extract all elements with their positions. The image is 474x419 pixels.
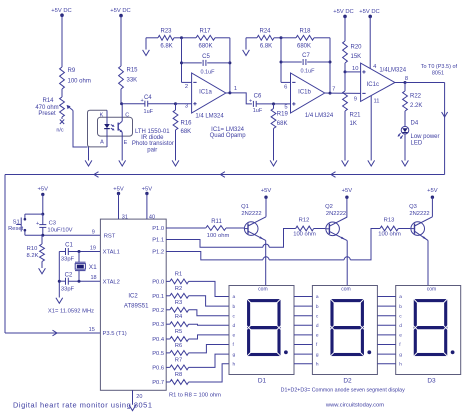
svg-text:A: A — [100, 140, 104, 146]
svg-text:Q1: Q1 — [241, 204, 249, 210]
svg-text:40: 40 — [149, 214, 155, 220]
svg-text:D2: D2 — [343, 378, 352, 385]
svg-text:d: d — [316, 323, 319, 329]
svg-text:68K: 68K — [181, 129, 192, 135]
svg-text:XTAL2: XTAL2 — [103, 279, 120, 285]
svg-text:com: com — [341, 286, 350, 292]
svg-text:68K: 68K — [277, 121, 288, 127]
svg-text:R18: R18 — [299, 28, 311, 34]
svg-text:1/4 LM324: 1/4 LM324 — [195, 114, 224, 120]
svg-text:1/4LM324: 1/4LM324 — [379, 68, 406, 74]
svg-text:S1: S1 — [13, 219, 20, 225]
svg-text:Photo transistor: Photo transistor — [132, 141, 174, 147]
svg-text:IR diode: IR diode — [141, 135, 164, 141]
svg-text:P1.0: P1.0 — [152, 226, 164, 232]
svg-text:X1= 11.0592 MHz: X1= 11.0592 MHz — [48, 308, 94, 314]
svg-text:+5V DC: +5V DC — [333, 9, 353, 15]
svg-text:20: 20 — [136, 394, 142, 400]
svg-text:C2: C2 — [65, 272, 73, 278]
svg-text:6.8K: 6.8K — [260, 44, 272, 50]
svg-text:IC1c: IC1c — [367, 82, 379, 88]
svg-text:C3: C3 — [49, 220, 56, 226]
svg-text:g: g — [399, 353, 402, 358]
svg-text:6: 6 — [284, 84, 287, 90]
svg-text:31: 31 — [122, 214, 128, 220]
svg-text:2.2K: 2.2K — [410, 103, 422, 109]
svg-text:R13: R13 — [384, 218, 395, 224]
svg-text:a: a — [233, 295, 236, 300]
svg-text:R8: R8 — [175, 372, 182, 378]
svg-text:R1: R1 — [175, 271, 182, 277]
svg-text:R23: R23 — [160, 28, 172, 34]
svg-text:7: 7 — [332, 87, 335, 93]
svg-text:LTH 1550-01: LTH 1550-01 — [135, 129, 170, 135]
svg-text:680K: 680K — [198, 44, 212, 50]
svg-text:9: 9 — [92, 229, 95, 235]
svg-text:P1.1: P1.1 — [152, 238, 164, 244]
svg-text:a: a — [399, 295, 402, 300]
svg-text:15K: 15K — [351, 54, 362, 60]
svg-text:6.8K: 6.8K — [160, 44, 172, 50]
svg-text:R14: R14 — [42, 98, 54, 104]
svg-text:+: + — [36, 221, 39, 227]
svg-text:P0.0: P0.0 — [152, 279, 164, 285]
svg-text:R1 to R8 = 100 ohm: R1 to R8 = 100 ohm — [169, 393, 221, 399]
svg-text:100 ohm: 100 ohm — [378, 232, 401, 238]
svg-text:P1.2: P1.2 — [152, 250, 164, 256]
svg-text:IC1b: IC1b — [298, 89, 311, 95]
svg-text:C1: C1 — [65, 243, 73, 249]
svg-text:33K: 33K — [127, 78, 138, 84]
svg-text:9: 9 — [354, 97, 357, 103]
svg-text:1: 1 — [234, 86, 237, 92]
svg-text:P0.2: P0.2 — [152, 308, 164, 314]
svg-text:R4: R4 — [175, 314, 183, 320]
svg-text:C7: C7 — [302, 53, 310, 59]
svg-text:8.2K: 8.2K — [27, 253, 39, 259]
svg-text:1uF: 1uF — [253, 108, 263, 114]
svg-text:+5V: +5V — [113, 187, 124, 193]
svg-text:d: d — [233, 323, 236, 329]
svg-text:R16: R16 — [181, 121, 193, 127]
svg-text:R22: R22 — [410, 94, 422, 100]
svg-text:To T0 (P3.5) of: To T0 (P3.5) of — [421, 64, 458, 70]
svg-text:XTAL1: XTAL1 — [103, 250, 120, 256]
svg-text:Q3: Q3 — [409, 204, 417, 210]
svg-text:P0.5: P0.5 — [152, 351, 164, 357]
svg-text:10: 10 — [352, 66, 358, 72]
svg-text:2: 2 — [185, 84, 188, 90]
svg-text:19: 19 — [90, 245, 96, 251]
svg-text:680K: 680K — [297, 44, 311, 50]
svg-text:2N2222: 2N2222 — [326, 211, 346, 217]
svg-text:b: b — [233, 304, 236, 310]
svg-text:33pF: 33pF — [61, 286, 75, 292]
svg-text:+5V DC: +5V DC — [359, 9, 379, 15]
svg-text:8: 8 — [405, 76, 408, 82]
svg-text:Quad Opamp: Quad Opamp — [210, 133, 247, 139]
svg-text:5: 5 — [284, 104, 287, 110]
svg-text:Reset: Reset — [8, 226, 24, 232]
svg-text:0.1uF: 0.1uF — [300, 69, 315, 75]
svg-text:100 ohm: 100 ohm — [293, 232, 316, 238]
svg-text:R11: R11 — [211, 219, 222, 225]
svg-text:AT89S51: AT89S51 — [124, 304, 149, 310]
svg-text:R15: R15 — [127, 68, 139, 74]
svg-text:R9: R9 — [68, 68, 76, 74]
svg-text:+5V: +5V — [142, 187, 153, 193]
svg-text:IC2: IC2 — [128, 293, 138, 299]
svg-text:R3: R3 — [175, 300, 182, 306]
svg-text:a: a — [316, 295, 319, 300]
svg-text:h: h — [399, 361, 402, 367]
svg-text:R24: R24 — [259, 28, 271, 34]
svg-text:18: 18 — [90, 275, 96, 281]
svg-text:+5V: +5V — [38, 187, 49, 193]
svg-text:1/4 LM324: 1/4 LM324 — [305, 113, 334, 119]
svg-text:470 ohm: 470 ohm — [35, 105, 58, 111]
svg-text:Q2: Q2 — [325, 204, 333, 210]
svg-text:g: g — [233, 353, 236, 358]
svg-text:b: b — [316, 304, 319, 310]
svg-text:8051: 8051 — [432, 70, 444, 76]
svg-text:e: e — [316, 334, 319, 339]
svg-text:e: e — [399, 334, 402, 339]
svg-text:g: g — [316, 353, 319, 358]
svg-text:10uF/10V: 10uF/10V — [47, 228, 72, 234]
svg-text:d: d — [399, 323, 402, 329]
svg-text:X1: X1 — [89, 264, 97, 271]
svg-text:LED: LED — [411, 140, 423, 146]
svg-text:D1+D2+D3= Common anode seven s: D1+D2+D3= Common anode seven segment dis… — [281, 388, 405, 394]
svg-text:+5V: +5V — [342, 188, 353, 194]
svg-text:1uF: 1uF — [144, 109, 154, 115]
svg-text:15: 15 — [89, 327, 95, 333]
svg-text:100 ohm: 100 ohm — [68, 79, 91, 85]
svg-text:Digital heart rate monitor usi: Digital heart rate monitor using 8051 — [13, 401, 153, 410]
svg-text:IC1= LM324: IC1= LM324 — [211, 127, 245, 133]
svg-text:+: + — [249, 98, 252, 104]
svg-text:R20: R20 — [351, 45, 363, 51]
svg-text:b: b — [399, 304, 402, 310]
svg-text:RST: RST — [104, 233, 116, 239]
svg-text:R17: R17 — [199, 28, 211, 34]
svg-text:2N2222: 2N2222 — [409, 211, 429, 217]
svg-text:com: com — [258, 286, 267, 292]
svg-text:+5V: +5V — [261, 188, 272, 194]
svg-text:e: e — [233, 334, 236, 339]
svg-text:+5V DC: +5V DC — [110, 8, 130, 14]
svg-text:R5: R5 — [175, 329, 182, 335]
svg-text:P3.5 (T1): P3.5 (T1) — [103, 331, 127, 337]
svg-text:Preset: Preset — [38, 111, 56, 117]
svg-text:www.circuitstoday.com: www.circuitstoday.com — [325, 402, 384, 408]
svg-text:R19: R19 — [277, 112, 289, 118]
svg-text:2N2222: 2N2222 — [241, 211, 261, 217]
svg-text:P0.4: P0.4 — [152, 337, 165, 343]
svg-text:R7: R7 — [175, 357, 182, 363]
svg-text:D1: D1 — [258, 378, 267, 385]
svg-text:+5V DC: +5V DC — [51, 8, 71, 14]
svg-text:IC1a: IC1a — [199, 89, 212, 95]
svg-text:3: 3 — [185, 104, 188, 110]
svg-text:C6: C6 — [254, 94, 262, 100]
svg-text:h: h — [316, 361, 319, 367]
svg-text:1K: 1K — [350, 121, 357, 127]
svg-text:P0.7: P0.7 — [152, 380, 164, 386]
svg-text:h: h — [233, 361, 236, 367]
svg-text:P0.6: P0.6 — [152, 365, 164, 371]
svg-text:E: E — [124, 140, 128, 146]
svg-text:R21: R21 — [350, 113, 362, 119]
svg-text:C5: C5 — [202, 54, 210, 60]
svg-text:11: 11 — [374, 98, 380, 104]
svg-text:P0.3: P0.3 — [152, 322, 164, 328]
svg-text:D4: D4 — [411, 121, 419, 127]
svg-text:C4: C4 — [144, 95, 152, 101]
svg-text:R6: R6 — [175, 343, 182, 349]
svg-text:R12: R12 — [299, 218, 310, 224]
svg-text:+5V: +5V — [427, 188, 438, 194]
svg-text:D3: D3 — [427, 378, 436, 385]
svg-text:0.1uF: 0.1uF — [200, 70, 215, 76]
svg-text:C: C — [125, 112, 129, 118]
svg-text:com: com — [427, 286, 436, 292]
svg-text:K: K — [100, 113, 104, 119]
svg-text:33pF: 33pF — [61, 256, 75, 262]
svg-text:100 ohm: 100 ohm — [207, 233, 230, 239]
svg-text:R2: R2 — [175, 286, 182, 292]
svg-text:P0.1: P0.1 — [152, 294, 164, 300]
svg-text:n/c: n/c — [56, 128, 64, 134]
svg-text:pair: pair — [147, 147, 157, 153]
svg-text:R10: R10 — [27, 246, 38, 252]
svg-text:Low power: Low power — [411, 134, 440, 140]
